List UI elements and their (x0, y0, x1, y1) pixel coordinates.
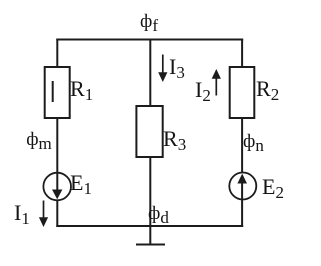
wire right branch (241, 39, 243, 228)
wire top bus (node f) (56, 39, 243, 41)
source E2 (229, 173, 256, 200)
current I3 label (169, 56, 185, 78)
resistor R1 label (70, 78, 93, 100)
wire left branch (56, 39, 58, 228)
current I1 label (14, 202, 30, 224)
resistor R2 label (256, 78, 279, 100)
resistor R2 (230, 67, 255, 118)
resistor R3 (136, 106, 162, 157)
wire bottom bus (56, 225, 243, 227)
node n label (243, 132, 264, 151)
current arrow I2 (215, 78, 217, 96)
source E1 label (70, 172, 92, 194)
node m label (26, 130, 52, 149)
current I2 label (195, 79, 211, 101)
source E1 (43, 173, 71, 201)
node f label (140, 12, 158, 31)
node d label (148, 204, 169, 223)
current arrow I1 (43, 201, 45, 220)
wire middle branch (149, 39, 151, 244)
ground (136, 244, 165, 246)
current arrow I3 (162, 55, 164, 75)
resistor R1 (45, 67, 70, 118)
resistor R3 label (163, 128, 186, 150)
source E2 label (262, 176, 284, 198)
